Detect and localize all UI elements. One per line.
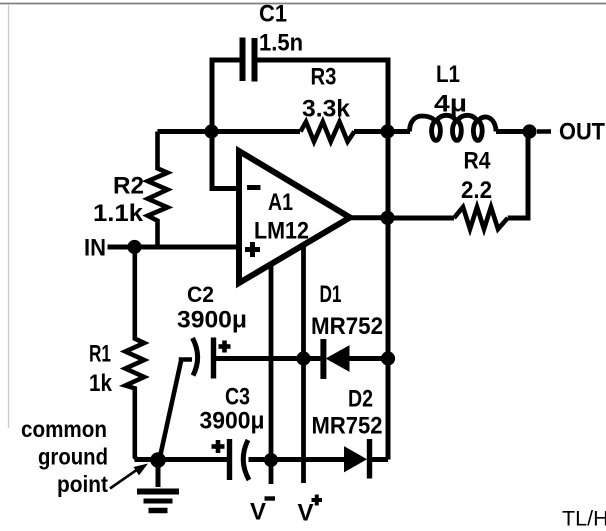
op-amp minus sign: [247, 185, 261, 190]
svg-text:R4: R4: [464, 148, 492, 175]
svg-text:OUT: OUT: [559, 119, 605, 146]
node OUT junction: [522, 124, 536, 138]
resistor R3: [301, 122, 355, 142]
border top rule: [0, 3, 606, 5]
wire bottom rail middle: [249, 457, 347, 462]
node D1 bus junction: [381, 351, 395, 365]
svg-text:V: V: [298, 500, 314, 527]
net V-: [250, 499, 275, 526]
op-amp plus sign: [245, 242, 260, 257]
svg-text:R1: R1: [89, 341, 111, 368]
svg-text:4μ: 4μ: [434, 91, 467, 118]
node V- rail junction: [264, 453, 278, 467]
diode D1: [323, 339, 349, 379]
svg-text:ground: ground: [38, 444, 108, 470]
border left rule: [8, 4, 10, 428]
node output junction: [380, 211, 394, 225]
ground arrow: [110, 464, 148, 489]
resistor R4: [454, 207, 508, 229]
svg-text:C1: C1: [259, 1, 287, 28]
svg-text:1.5n: 1.5n: [259, 30, 303, 57]
svg-text:R2: R2: [113, 173, 144, 200]
wire bottom rail left: [135, 457, 228, 462]
wire V+ supply line: [301, 245, 306, 484]
svg-text:IN: IN: [84, 235, 106, 262]
capacitor C3: [212, 439, 250, 480]
wire rail L1 to OUT node: [496, 129, 530, 134]
svg-text:V: V: [250, 499, 266, 526]
wire inverting input: [212, 132, 239, 189]
wire R4 row left: [388, 216, 454, 221]
wire C1 top-right: [257, 58, 388, 63]
node IN junction: [127, 240, 141, 254]
wire V- supply line: [269, 264, 274, 485]
svg-text:L1: L1: [436, 61, 460, 88]
svg-text:R3: R3: [311, 64, 337, 91]
svg-text:TL/H: TL/H: [562, 507, 606, 531]
diode D2: [345, 439, 370, 479]
svg-text:common: common: [21, 416, 107, 442]
resistor R1: [125, 247, 144, 460]
op-amp U1 triangle: [239, 151, 350, 283]
svg-text:3900μ: 3900μ: [177, 307, 247, 334]
svg-text:LM12: LM12: [254, 218, 309, 245]
svg-text:2.2: 2.2: [461, 177, 492, 204]
wire C1 top-left loop: [212, 60, 240, 134]
svg-text:C3: C3: [225, 384, 250, 411]
svg-text:A1: A1: [268, 189, 293, 216]
wire main rail left: [158, 129, 301, 134]
node ground junction: [150, 452, 166, 468]
wire D1 to bus: [349, 356, 388, 361]
node A inverting rail junction: [204, 124, 218, 138]
wire IN lead: [108, 245, 240, 250]
ground: [137, 460, 179, 511]
inductor L1: [410, 115, 497, 140]
node V+ D1 junction: [296, 351, 310, 365]
wire OUT stub: [537, 129, 551, 134]
node B feedback rail junction: [380, 124, 394, 138]
wire op-amp output: [350, 215, 388, 220]
svg-text:MR752: MR752: [311, 313, 383, 340]
svg-text:D1: D1: [320, 281, 342, 308]
svg-text:1.1k: 1.1k: [93, 200, 144, 227]
wire C2 to D1: [216, 356, 321, 361]
wire right vertical feedback bus: [386, 58, 391, 460]
wire bottom rail right to corner: [372, 457, 389, 462]
svg-text:1k: 1k: [89, 370, 113, 397]
svg-text:3900μ: 3900μ: [200, 408, 265, 435]
wire rail between R3 and L1: [354, 129, 410, 134]
capacitor C1: [243, 38, 255, 82]
svg-text:MR752: MR752: [312, 413, 383, 440]
wire R4 to OUT corner: [508, 132, 528, 219]
resistor R2: [148, 132, 168, 248]
svg-text:D2: D2: [348, 386, 373, 413]
wire slant to C2: [160, 360, 193, 460]
capacitor C2: [193, 338, 231, 379]
svg-text:C2: C2: [187, 282, 214, 307]
svg-text:3.3k: 3.3k: [302, 96, 351, 123]
svg-text:point: point: [57, 471, 108, 497]
net V+: [298, 495, 323, 527]
